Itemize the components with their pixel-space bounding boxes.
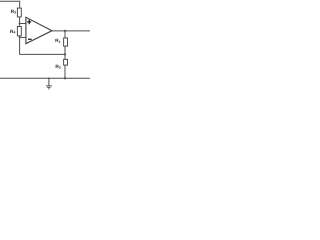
- op-amp U1: [26, 17, 52, 43]
- svg-text:R4: R4: [10, 29, 15, 35]
- wire top input: [0, 1, 20, 8]
- node B junction dot: [19, 36, 21, 38]
- wire + input: [20, 23, 26, 25]
- resistor R1: [64, 38, 68, 46]
- wire bottom rail: [0, 77, 90, 79]
- resistor R3: [17, 8, 21, 17]
- output node junction dot: [64, 30, 66, 32]
- rail node junction dot: [64, 77, 66, 79]
- wire - input: [20, 36, 26, 38]
- node A junction dot: [19, 23, 21, 25]
- wire R2 to rail: [64, 65, 66, 78]
- wire R4 bottom down: [19, 36, 21, 55]
- resistor R2: [64, 59, 68, 65]
- wire output to R1: [64, 31, 66, 38]
- feedback node junction dot: [64, 53, 66, 55]
- wire output: [52, 30, 90, 32]
- wire feedback bottom: [20, 53, 65, 55]
- wire R1 to R2: [64, 46, 66, 59]
- op-amp minus sign: [28, 38, 32, 40]
- svg-text:R1: R1: [55, 38, 60, 44]
- op-amp plus sign: [27, 20, 31, 25]
- svg-text:R2: R2: [55, 64, 60, 70]
- svg-text:R3: R3: [11, 9, 16, 15]
- resistor R4: [17, 27, 21, 36]
- ground: [48, 77, 50, 79]
- wire R3 bottom to node A: [19, 17, 21, 27]
